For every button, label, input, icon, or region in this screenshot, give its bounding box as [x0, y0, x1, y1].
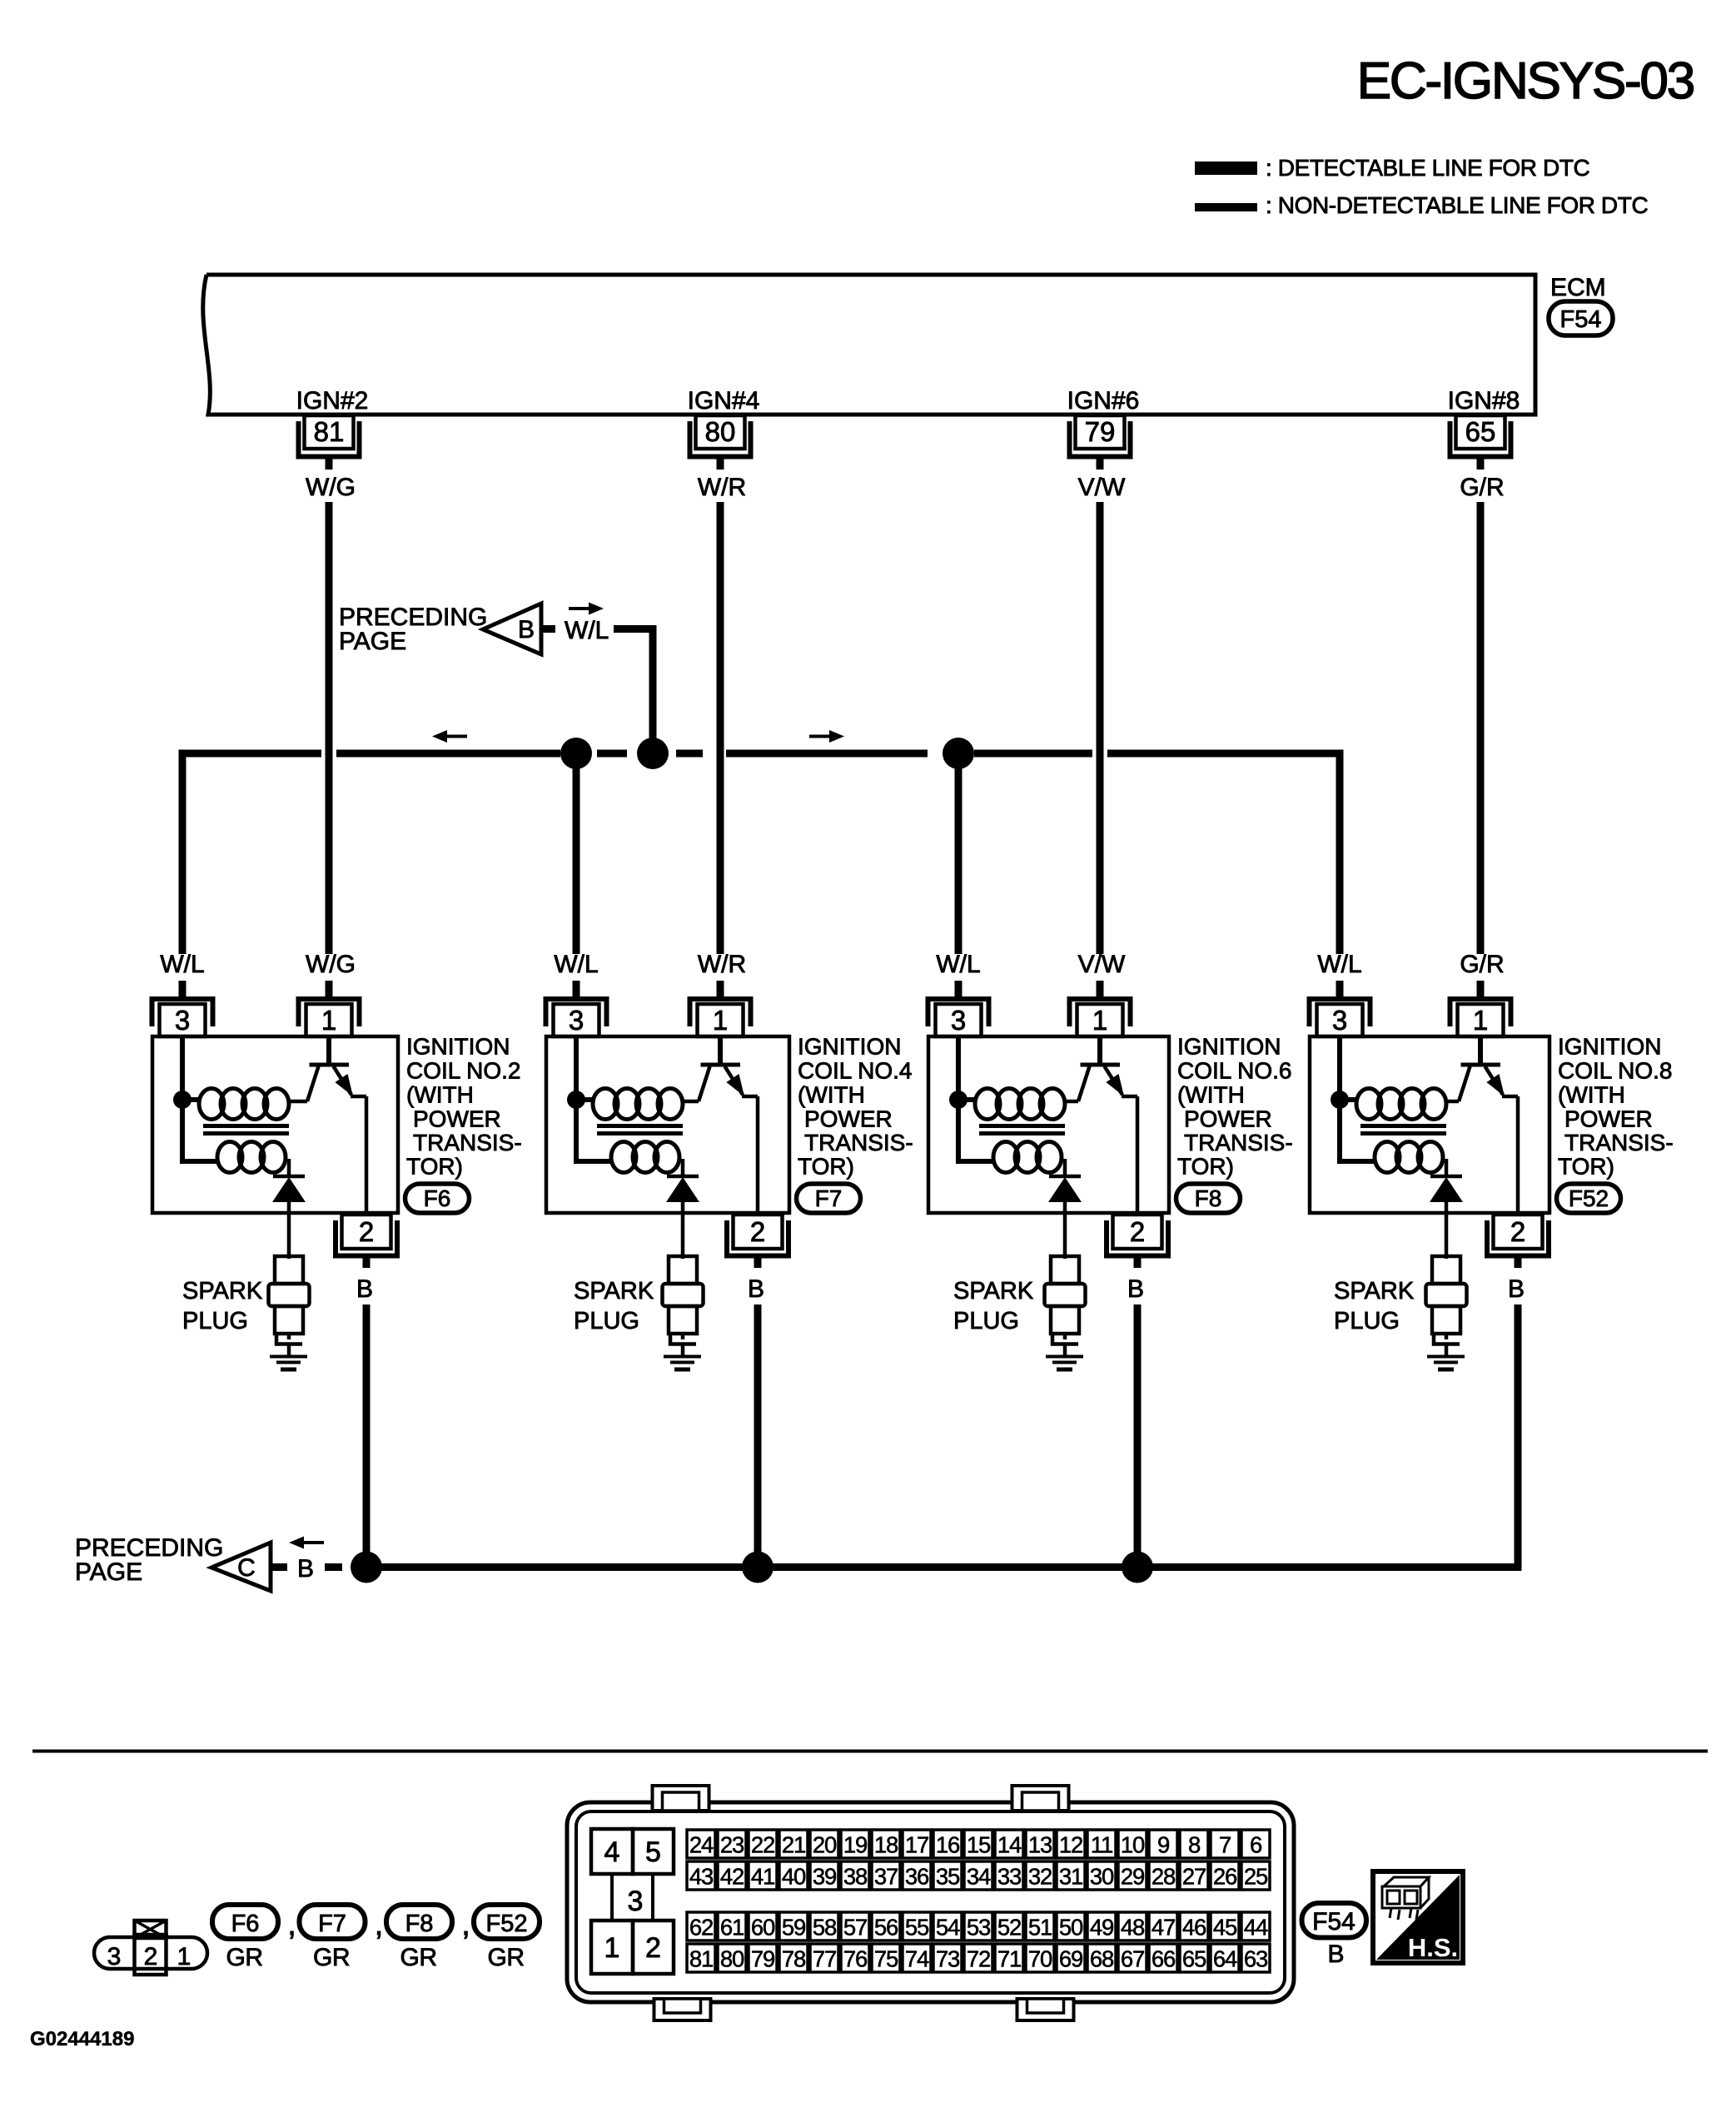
svg-text:6: 6	[1250, 1832, 1262, 1858]
svg-text:SPARK: SPARK	[953, 1278, 1034, 1304]
ignition coil No.4 body box	[546, 1036, 789, 1213]
junction dot ground bus at coil No.2	[351, 1552, 382, 1583]
junction dot inside coil No.4	[567, 1091, 585, 1109]
svg-text:IGNITION: IGNITION	[1558, 1034, 1661, 1060]
svg-text:37: 37	[874, 1864, 898, 1890]
svg-text:B: B	[1127, 1275, 1144, 1303]
svg-text:F6: F6	[424, 1185, 451, 1211]
coil No.2 pin 2 connector bracket	[336, 1220, 397, 1256]
coil No.2 pin 1 wire stub	[326, 981, 333, 996]
junction dot W/L bus to preceding page B	[637, 738, 669, 769]
ignition coil No.8 body box	[1310, 1036, 1549, 1213]
svg-text:79: 79	[751, 1946, 774, 1972]
arrow on W/L bus pointing right	[809, 735, 833, 738]
H.S. badge connector icon	[1382, 1877, 1429, 1920]
wire from coil No.2 secondary to spark plug	[287, 1202, 291, 1259]
wire W/L bus segment	[974, 750, 1092, 758]
coil No.2 pin 1 terminal box	[306, 1004, 352, 1036]
ECM pin 81 connector bracket	[299, 421, 360, 457]
off-page connector flag C	[211, 1543, 271, 1591]
H.S. badge	[1373, 1871, 1463, 1963]
wire W/L bus segment (right)	[1107, 750, 1344, 758]
connector oval F6 (bottom)	[212, 1905, 278, 1939]
coil No.4 pin 3 wire stub	[573, 981, 580, 996]
wire B dash	[325, 1563, 342, 1571]
junction dot W/L bus to coil No.4 pin 3	[560, 738, 592, 769]
svg-text:17: 17	[905, 1832, 928, 1858]
svg-text:27: 27	[1182, 1864, 1206, 1890]
svg-text:ECM: ECM	[1550, 274, 1606, 301]
svg-text:10: 10	[1121, 1832, 1145, 1858]
svg-text:POWER: POWER	[804, 1106, 893, 1132]
ECM pin 65 wire stub	[1477, 459, 1485, 470]
junction dot inside coil No.6	[949, 1091, 967, 1109]
ECM pin 65 terminal box	[1456, 415, 1505, 449]
svg-text:W/G: W/G	[306, 474, 356, 501]
wire V/W from ECM pin 79 down to ignition coil	[1097, 502, 1104, 954]
coil No.4 pin 3 terminal box	[554, 1004, 599, 1036]
svg-text:V/W: V/W	[1078, 951, 1126, 978]
coil No.2 pin 2 terminal box	[342, 1215, 391, 1249]
svg-text:GR: GR	[400, 1944, 437, 1971]
connector oval F54 (bottom)	[1302, 1903, 1367, 1938]
svg-text:66: 66	[1152, 1946, 1176, 1972]
coil No.8 pin 1 terminal box	[1458, 1004, 1504, 1036]
spark plug No.2	[275, 1256, 303, 1284]
svg-text:4: 4	[604, 1836, 620, 1868]
transformer core coil No.4	[597, 1124, 683, 1128]
svg-text:1: 1	[604, 1932, 620, 1964]
svg-text:55: 55	[905, 1915, 929, 1941]
svg-text:IGNITION: IGNITION	[1177, 1034, 1281, 1060]
svg-text:POWER: POWER	[1184, 1106, 1272, 1132]
svg-text:COIL NO.2: COIL NO.2	[406, 1058, 520, 1084]
wire B from coil No.2 pin 2 down to ground bus	[363, 1304, 371, 1568]
svg-text:TRANSIS-: TRANSIS-	[1184, 1130, 1293, 1155]
svg-text:TOR): TOR)	[798, 1154, 854, 1180]
wire W/L bus dash	[597, 750, 627, 758]
svg-text:(WITH: (WITH	[406, 1082, 474, 1108]
svg-text:40: 40	[782, 1864, 806, 1890]
svg-text:7: 7	[1219, 1832, 1231, 1858]
svg-text:TRANSIS-: TRANSIS-	[1564, 1130, 1674, 1155]
svg-text:F54: F54	[1560, 306, 1602, 333]
coil No.2 connector oval F6	[405, 1184, 470, 1213]
primary winding coil No.8	[1356, 1089, 1381, 1120]
spark plug No.4	[669, 1256, 697, 1284]
coil No.2 pin 3 wire stub	[179, 981, 187, 996]
wire W/L bus segment	[726, 750, 928, 758]
svg-text:56: 56	[874, 1915, 898, 1941]
svg-text:60: 60	[751, 1915, 775, 1941]
svg-text:5: 5	[645, 1836, 661, 1868]
svg-text:TRANSIS-: TRANSIS-	[804, 1130, 913, 1155]
svg-text:3: 3	[569, 1005, 584, 1036]
ground (spark plug No.8)	[1427, 1355, 1465, 1359]
junction dot W/L bus to coil No.6 pin 3	[943, 738, 974, 769]
svg-text:F52: F52	[486, 1911, 528, 1937]
ground (spark plug No.6)	[1046, 1355, 1083, 1359]
svg-text:1: 1	[177, 1943, 192, 1970]
svg-text:W/L: W/L	[936, 951, 980, 978]
ECM pin 79 terminal box	[1076, 415, 1125, 449]
junction dot inside coil No.8	[1331, 1091, 1349, 1109]
svg-text:80: 80	[705, 416, 736, 447]
svg-text:W/R: W/R	[698, 951, 746, 978]
svg-text:72: 72	[967, 1946, 990, 1972]
ECM (box with torn left edge)	[203, 275, 1535, 415]
svg-text:PLUG: PLUG	[953, 1308, 1019, 1334]
secondary diode coil No.6	[1063, 1159, 1067, 1175]
primary winding coil No.4	[593, 1089, 618, 1120]
svg-text:SPARK: SPARK	[1334, 1278, 1415, 1304]
svg-text:IGNITION: IGNITION	[798, 1034, 901, 1060]
ECM connector oval F54	[1549, 301, 1613, 335]
wire B from coil No.6 pin 2 down to ground bus	[1134, 1304, 1142, 1568]
legend: detectable line for DTC	[1195, 162, 1257, 175]
ECM connector pin grid	[687, 1830, 1270, 1858]
svg-text:F8: F8	[405, 1911, 434, 1937]
coil No.8 pin 1 wire stub	[1477, 981, 1485, 996]
svg-text:75: 75	[874, 1946, 898, 1972]
ignition coil No.6 body box	[928, 1036, 1169, 1213]
connector top tabs	[653, 1786, 709, 1811]
svg-text:21: 21	[782, 1832, 805, 1858]
svg-text:3: 3	[175, 1005, 190, 1036]
svg-text:1: 1	[713, 1005, 728, 1036]
svg-text:F54: F54	[1312, 1908, 1355, 1936]
secondary winding coil No.4	[611, 1142, 636, 1173]
connector cavity boxes 4 5 3 1 2	[591, 1829, 633, 1874]
svg-text:: DETECTABLE LINE FOR DTC: : DETECTABLE LINE FOR DTC	[1266, 155, 1589, 181]
svg-text:2: 2	[1510, 1216, 1525, 1247]
svg-text:2: 2	[144, 1943, 158, 1970]
coil No.6 pin 1 wire stub	[1097, 981, 1104, 996]
svg-text:57: 57	[843, 1915, 867, 1941]
svg-text:SPARK: SPARK	[574, 1278, 654, 1304]
coil No.6 pin 1 terminal box	[1077, 1004, 1123, 1036]
svg-text:B: B	[518, 616, 535, 644]
secondary winding coil No.2	[217, 1142, 242, 1173]
svg-text:42: 42	[720, 1864, 744, 1890]
ignition coil No.2 body box	[152, 1036, 398, 1213]
svg-text:54: 54	[936, 1915, 960, 1941]
svg-text:IGN#8: IGN#8	[1448, 387, 1520, 415]
svg-text:80: 80	[720, 1946, 744, 1972]
svg-text:65: 65	[1182, 1946, 1206, 1972]
coil connector face (pins 3-2-1)	[94, 1937, 207, 1969]
coil No.8 pin 2 terminal box	[1494, 1215, 1543, 1249]
svg-text:69: 69	[1059, 1946, 1082, 1972]
svg-text:52: 52	[997, 1915, 1021, 1941]
svg-text:78: 78	[782, 1946, 806, 1972]
svg-text:58: 58	[813, 1915, 837, 1941]
svg-text:53: 53	[967, 1915, 991, 1941]
svg-text:GR: GR	[488, 1944, 525, 1971]
junction dot ground bus at coil No.6	[1122, 1552, 1153, 1583]
wire B from coil No.4 pin 2 down to ground bus	[754, 1304, 762, 1568]
wire W/R from ECM pin 80 down to ignition coil	[717, 502, 724, 954]
coil No.4 connector oval F7	[797, 1184, 861, 1213]
off-page connector flag B	[483, 604, 541, 654]
svg-text:18: 18	[874, 1832, 898, 1858]
svg-text:2: 2	[750, 1216, 765, 1247]
coil No.4 pin 1 wire stub	[717, 981, 724, 996]
connector oval F52 (bottom)	[474, 1905, 540, 1939]
ECM pin 81 terminal box	[305, 415, 354, 449]
transformer core coil No.8	[1360, 1124, 1446, 1128]
keying tab with X	[135, 1921, 167, 1938]
svg-text:28: 28	[1152, 1864, 1176, 1890]
svg-text:COIL NO.4: COIL NO.4	[798, 1058, 912, 1084]
svg-text:76: 76	[843, 1946, 868, 1972]
svg-text:F7: F7	[815, 1185, 843, 1211]
svg-text:POWER: POWER	[1564, 1106, 1653, 1132]
coil No.4 pin 2 connector bracket	[727, 1220, 788, 1256]
svg-text:GR: GR	[226, 1944, 263, 1971]
svg-text:2: 2	[359, 1216, 374, 1247]
svg-text:F6: F6	[231, 1911, 260, 1937]
wire B ground bus	[379, 1563, 1522, 1571]
svg-text:1: 1	[321, 1005, 336, 1036]
coil No.4 internal wire from pin 3	[576, 1036, 613, 1161]
coil No.8 internal wire from pin 3	[1340, 1036, 1376, 1161]
svg-text:45: 45	[1213, 1915, 1237, 1941]
ECM pin 80 connector bracket	[690, 421, 751, 457]
svg-text:G/R: G/R	[1460, 951, 1504, 978]
svg-text:9: 9	[1157, 1832, 1169, 1858]
svg-text:22: 22	[751, 1832, 774, 1858]
ECM connector F54 face outline	[567, 1802, 1294, 2002]
svg-text:POWER: POWER	[413, 1106, 501, 1132]
svg-text:49: 49	[1090, 1915, 1113, 1941]
svg-text:15: 15	[967, 1832, 991, 1858]
connector oval F7 (bottom)	[300, 1905, 366, 1939]
spark plug No.6	[1051, 1256, 1079, 1284]
separator line	[32, 1750, 1708, 1753]
svg-text:74: 74	[905, 1946, 929, 1972]
svg-text:W/L: W/L	[160, 951, 204, 978]
svg-text:3: 3	[628, 1886, 644, 1917]
coil No.6 pin 2 wire stub	[1134, 1255, 1142, 1268]
arrow at flag B pointing right	[569, 607, 592, 610]
svg-text:PAGE: PAGE	[339, 628, 406, 655]
svg-text:11: 11	[1091, 1832, 1112, 1858]
svg-text:29: 29	[1121, 1864, 1144, 1890]
svg-text:TOR): TOR)	[1177, 1154, 1234, 1180]
svg-text:12: 12	[1059, 1832, 1082, 1858]
wire stub from flag C	[271, 1563, 287, 1571]
svg-text:1: 1	[1092, 1005, 1107, 1036]
svg-text:26: 26	[1213, 1864, 1237, 1890]
svg-text:B: B	[1508, 1275, 1525, 1303]
coil No.6 pin 3 wire stub	[955, 981, 963, 996]
svg-text:51: 51	[1028, 1915, 1052, 1941]
arrow on W/L bus pointing left	[444, 735, 467, 738]
svg-text:73: 73	[936, 1946, 960, 1972]
svg-text:F7: F7	[318, 1911, 346, 1937]
svg-text:24: 24	[689, 1832, 714, 1858]
svg-text:IGN#6: IGN#6	[1067, 387, 1140, 415]
svg-text:81: 81	[689, 1946, 713, 1972]
wire W/L from bus junction down to coil No.4 pin 3	[573, 753, 580, 954]
svg-text:B: B	[748, 1275, 764, 1303]
svg-text:30: 30	[1090, 1864, 1114, 1890]
svg-text:33: 33	[997, 1864, 1022, 1890]
ground (spark plug No.2)	[270, 1355, 307, 1359]
ECM pin 65 connector bracket	[1450, 421, 1511, 457]
coil No.6 pin 3 connector bracket	[928, 999, 989, 1026]
transformer core coil No.2	[203, 1124, 289, 1128]
svg-text:(WITH: (WITH	[1558, 1082, 1625, 1108]
svg-text:IGN#2: IGN#2	[296, 387, 369, 415]
svg-text:TOR): TOR)	[406, 1154, 463, 1180]
svg-text:3: 3	[951, 1005, 966, 1036]
svg-text:G/R: G/R	[1460, 474, 1504, 501]
svg-text:81: 81	[314, 416, 345, 447]
svg-text:V/W: V/W	[1078, 474, 1126, 501]
svg-text:G02444189: G02444189	[30, 2028, 134, 2050]
primary winding coil No.2	[199, 1089, 224, 1120]
svg-text:46: 46	[1182, 1915, 1206, 1941]
coil No.6 pin 2 terminal box	[1113, 1215, 1162, 1249]
power transistor coil No.6	[1065, 1100, 1078, 1104]
svg-text:8: 8	[1188, 1832, 1201, 1858]
legend: non-detectable line for DTC	[1195, 203, 1257, 211]
secondary winding coil No.8	[1375, 1142, 1400, 1173]
svg-text:50: 50	[1059, 1915, 1083, 1941]
svg-text:20: 20	[813, 1832, 837, 1858]
svg-text:PLUG: PLUG	[574, 1308, 639, 1334]
svg-text:77: 77	[813, 1946, 836, 1972]
svg-text:2: 2	[1130, 1216, 1145, 1247]
svg-text:63: 63	[1244, 1946, 1268, 1972]
secondary diode coil No.2	[287, 1159, 291, 1175]
svg-text:14: 14	[997, 1832, 1022, 1858]
coil No.4 pin 2 terminal box	[734, 1215, 783, 1249]
svg-text:38: 38	[843, 1864, 868, 1890]
coil No.6 pin 2 connector bracket	[1107, 1220, 1168, 1256]
wire W/L bus segment (left)	[179, 750, 322, 758]
power transistor coil No.4	[683, 1100, 699, 1104]
primary winding coil No.6	[975, 1089, 1000, 1120]
secondary diode coil No.4	[681, 1159, 685, 1175]
ECM pin 81 wire stub	[326, 459, 333, 470]
svg-text:W/L: W/L	[554, 951, 598, 978]
coil No.4 pin 2 wire stub	[754, 1255, 762, 1268]
svg-text:47: 47	[1152, 1915, 1175, 1941]
svg-text:H.S.: H.S.	[1408, 1933, 1458, 1962]
svg-text:48: 48	[1121, 1915, 1145, 1941]
coil No.8 pin 3 wire stub	[1336, 981, 1344, 996]
spark plug No.8	[1432, 1256, 1460, 1284]
coil No.8 pin 3 connector bracket	[1310, 999, 1370, 1026]
svg-text:COIL NO.8: COIL NO.8	[1558, 1058, 1672, 1084]
svg-text:PLUG: PLUG	[182, 1308, 248, 1334]
svg-text:: NON-DETECTABLE LINE FOR DTC: : NON-DETECTABLE LINE FOR DTC	[1266, 192, 1648, 218]
wire from coil No.6 secondary to spark plug	[1063, 1202, 1067, 1259]
svg-text:,: ,	[287, 1907, 296, 1942]
svg-text:64: 64	[1213, 1946, 1237, 1972]
svg-text:1: 1	[1473, 1005, 1488, 1036]
svg-text:IGN#4: IGN#4	[688, 387, 760, 415]
transformer core coil No.6	[979, 1124, 1065, 1128]
coil No.2 pin 1 connector bracket	[299, 999, 360, 1026]
coil No.6 pin 1 connector bracket	[1070, 999, 1131, 1026]
svg-text:TOR): TOR)	[1558, 1154, 1614, 1180]
coil No.4 pin 1 terminal box	[698, 1004, 744, 1036]
svg-text:B: B	[356, 1275, 373, 1303]
connector bottom tabs	[654, 1999, 711, 2020]
svg-text:41: 41	[751, 1864, 774, 1890]
svg-text:25: 25	[1244, 1864, 1268, 1890]
coil No.4 pin 1 connector bracket	[690, 999, 751, 1026]
svg-text:61: 61	[720, 1915, 744, 1941]
svg-text:2: 2	[645, 1932, 661, 1964]
node W/L bus: right corner vertical down to coil No.8 pin 3	[1336, 750, 1344, 955]
coil No.6 internal wire from pin 3	[958, 1036, 995, 1161]
svg-text:62: 62	[689, 1915, 713, 1941]
svg-text:(WITH: (WITH	[1177, 1082, 1245, 1108]
svg-text:PAGE: PAGE	[75, 1558, 142, 1586]
wire from coil No.8 secondary to spark plug	[1445, 1202, 1449, 1259]
svg-text:EC-IGNSYS-03: EC-IGNSYS-03	[1357, 52, 1694, 110]
coil No.6 pin 3 terminal box	[936, 1004, 982, 1036]
wire W/L bus segment	[336, 750, 560, 758]
svg-text:3: 3	[1332, 1005, 1347, 1036]
node W/L bus: left corner vertical down to coil No.2 pin 3	[179, 750, 187, 955]
wire stub from flag B	[542, 625, 555, 633]
svg-text:71: 71	[997, 1946, 1021, 1972]
junction dot inside coil No.2	[173, 1091, 192, 1109]
svg-text:23: 23	[720, 1832, 744, 1858]
svg-text:PLUG: PLUG	[1334, 1308, 1400, 1334]
svg-text:W/R: W/R	[698, 474, 746, 501]
svg-text:39: 39	[813, 1864, 836, 1890]
svg-text:(WITH: (WITH	[798, 1082, 865, 1108]
svg-text:W/L: W/L	[565, 617, 609, 644]
secondary winding coil No.6	[993, 1142, 1018, 1173]
coil No.8 pin 3 terminal box	[1317, 1004, 1363, 1036]
power transistor coil No.8	[1446, 1100, 1459, 1104]
ECM pin 79 wire stub	[1097, 459, 1104, 470]
svg-text:16: 16	[936, 1832, 960, 1858]
wire B from coil No.8 pin 2 down to ground bus	[1515, 1304, 1522, 1568]
svg-text:W/G: W/G	[306, 951, 356, 978]
coil No.6 connector oval F8	[1176, 1184, 1241, 1213]
svg-text:31: 31	[1059, 1864, 1082, 1890]
svg-text:70: 70	[1028, 1946, 1052, 1972]
coil No.8 pin 2 connector bracket	[1487, 1220, 1549, 1256]
coil No.8 pin 1 connector bracket	[1450, 999, 1511, 1026]
junction dot ground bus at coil No.4	[742, 1552, 773, 1583]
coil No.2 pin 2 wire stub	[363, 1255, 371, 1268]
wire W/G from ECM pin 81 down to ignition coil	[326, 502, 333, 954]
coil No.8 connector oval F52	[1557, 1184, 1621, 1213]
svg-text:SPARK: SPARK	[182, 1278, 263, 1304]
svg-text:,: ,	[375, 1907, 384, 1942]
svg-text:IGNITION: IGNITION	[406, 1034, 510, 1060]
svg-text:W/L: W/L	[1317, 951, 1361, 978]
connector oval F8 (bottom)	[386, 1905, 452, 1939]
power transistor coil No.2	[289, 1100, 307, 1104]
svg-text:19: 19	[843, 1832, 867, 1858]
coil No.2 internal wire from pin 3	[182, 1036, 219, 1161]
svg-text:32: 32	[1028, 1864, 1052, 1890]
svg-text:79: 79	[1085, 416, 1116, 447]
svg-text:67: 67	[1121, 1946, 1144, 1972]
wire W/L from bus junction down to coil No.6 pin 3	[955, 753, 963, 954]
